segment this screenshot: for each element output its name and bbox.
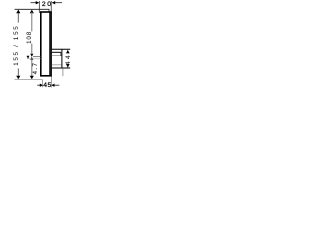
dim 44 bottom arrow	[66, 64, 70, 68]
extension below handle	[62, 68, 64, 76]
dim 155/155 line lower	[17, 68, 19, 76]
handle inner step vertical	[60, 52, 62, 56]
dim 155/155 top arrow	[16, 10, 20, 14]
bottom gray extension line	[15, 79, 43, 81]
dim 155/155 bottom arrow	[16, 76, 20, 80]
handle inner top line	[52, 51, 61, 53]
handle gray line upper	[52, 55, 62, 57]
plate top extension line	[15, 8, 50, 10]
dim 155/155 line upper	[17, 12, 19, 23]
dim 20 right line	[55, 2, 62, 4]
main body rectangle	[41, 12, 51, 76]
dim 45 right-pointing arrow	[40, 84, 43, 87]
dim 20 left line	[31, 2, 39, 4]
dim 45 left-pointing arrow	[51, 84, 54, 87]
dim 108 top arrow	[30, 10, 34, 14]
svg-text:44: 44	[65, 53, 72, 65]
handle bottom line	[52, 67, 70, 69]
plate front edge top segment	[48, 9, 50, 12]
handle top line	[52, 48, 70, 50]
dim 4.7 lower arrow (up)	[30, 57, 33, 60]
dim 44 top arrow	[66, 50, 70, 54]
dim 20 right arrow	[36, 1, 40, 4]
bottom extension vertical right	[51, 77, 53, 88]
dim 108 line upper	[31, 12, 33, 31]
svg-text:108: 108	[26, 31, 33, 44]
dim 108 small down arrow at handle axis	[27, 56, 30, 59]
dim 108 line mid	[31, 44, 33, 54]
dim 4.7 extension line lower	[27, 58, 41, 60]
dim 4.7 bottom arrow	[30, 76, 34, 80]
dim 4.7 extension line upper	[33, 56, 41, 58]
dim 4.7 upper arrow (down)	[30, 54, 33, 57]
handle gray line lower	[52, 64, 62, 66]
dim 45 left line	[37, 84, 40, 86]
handle right edge extended	[61, 49, 63, 68]
front face inner line	[49, 12, 51, 76]
dim 20 left arrow	[52, 1, 56, 4]
bottom extension vertical left	[41, 80, 43, 88]
svg-text:45: 45	[43, 82, 52, 89]
svg-text:4.7: 4.7	[32, 62, 39, 75]
svg-text:155 / 155: 155 / 155	[13, 25, 20, 66]
dim 20 extension line right	[50, 1, 52, 12]
dim 20 extension line left	[38, 1, 40, 13]
dim 45 right line	[54, 84, 59, 86]
dim 4.7 line lower run	[31, 60, 33, 76]
